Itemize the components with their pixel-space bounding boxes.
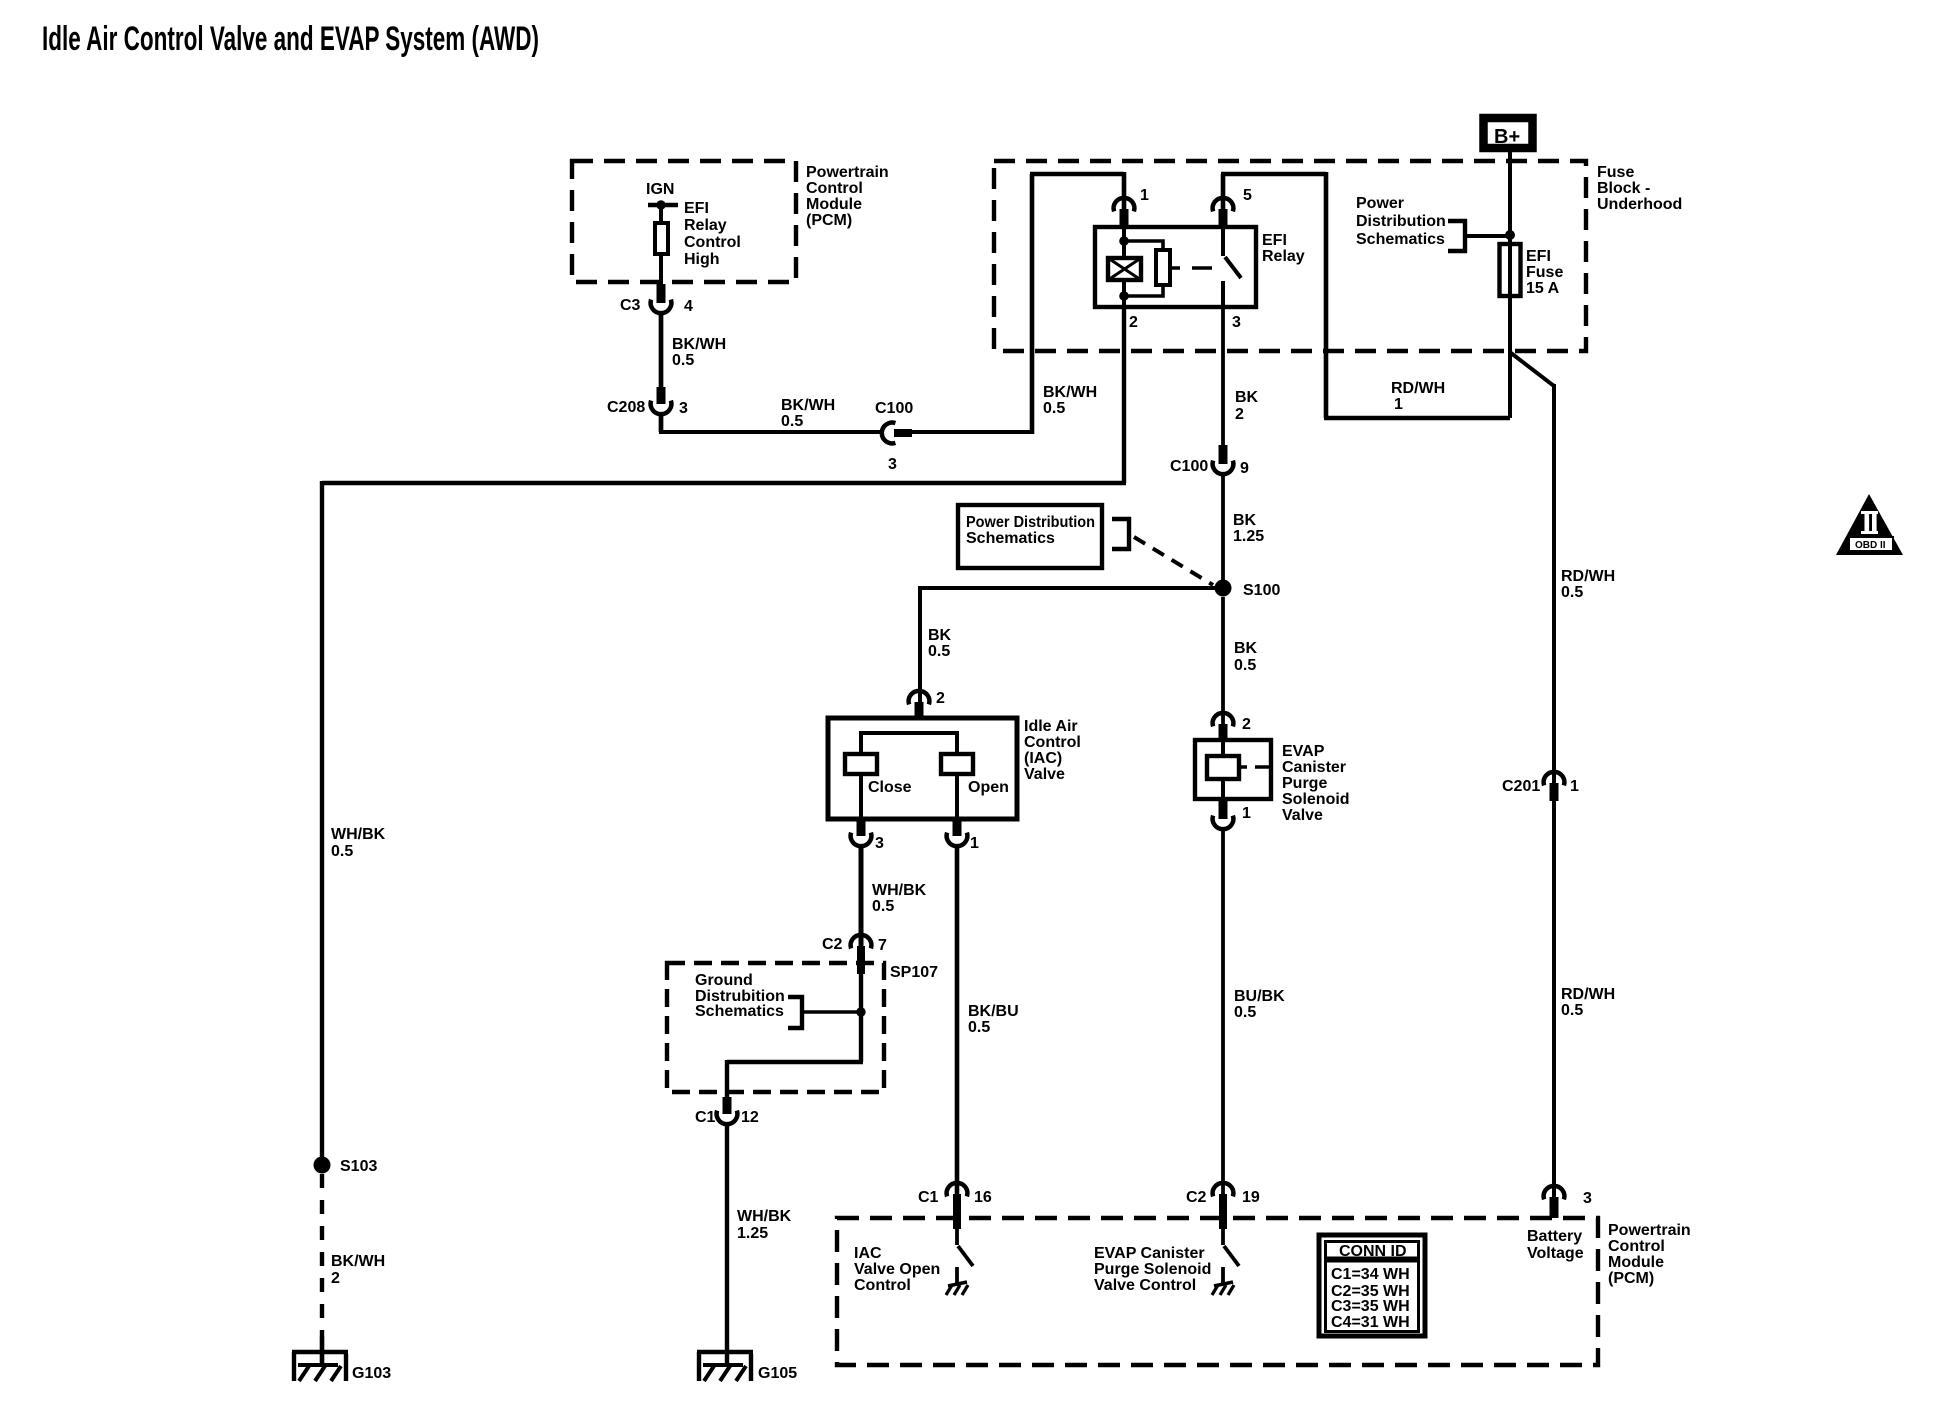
connector relay pin 1 [1114,187,1149,227]
EVAP canister purge solenoid valve box [1195,740,1271,799]
svg-text:2: 2 [1129,314,1138,331]
svg-text:S103: S103 [340,1158,377,1175]
title [42,20,539,58]
svg-text:Battery: Battery [1527,1228,1582,1245]
label PCM top [806,164,889,229]
svg-text:0.5: 0.5 [331,843,353,860]
svg-text:BK/BU: BK/BU [968,1003,1019,1020]
svg-text:7: 7 [878,937,887,954]
svg-text:3: 3 [679,400,688,417]
svg-text:Control: Control [1024,734,1081,751]
label IAC Valve Open Control [854,1245,940,1294]
svg-text:Schematics: Schematics [966,530,1055,547]
splice S103 [314,1157,378,1176]
IAC valve open control switch [946,1216,973,1295]
svg-text:Schematics: Schematics [695,1003,784,1020]
OBD II symbol [1836,494,1903,555]
svg-text:12: 12 [741,1109,759,1126]
svg-text:EFI: EFI [1262,232,1287,249]
EVAP canister purge solenoid valve control switch [1212,1216,1239,1295]
svg-text:Relay: Relay [684,217,727,234]
svg-text:Purge Solenoid: Purge Solenoid [1094,1261,1211,1278]
svg-text:2: 2 [1235,406,1244,423]
label Ground Distrubition Schematics [695,972,785,1020]
svg-text:Ground: Ground [695,972,753,989]
wire WH/BK 0.5 IAC pin 3 to C2 [861,846,927,948]
connector C208 pin 3 [607,387,688,417]
wire BK 1.25 to S100 [1223,474,1264,582]
fuse F EFI Fuse 15 A [1500,244,1564,297]
svg-text:5: 5 [1243,187,1252,204]
wire BK 0.5 S100 down to EVAP [1223,597,1258,726]
wire BK/WH 2 dashed to G103 [322,1174,385,1366]
label EVAP Canister Purge Solenoid Valve Control [1094,1245,1211,1294]
svg-text:1: 1 [1394,396,1403,413]
relay linkage dashes [1170,266,1212,270]
svg-text:1: 1 [1570,778,1579,795]
svg-text:C100: C100 [1170,458,1208,475]
svg-text:Voltage: Voltage [1527,1245,1584,1262]
svg-text:EFI: EFI [1526,248,1551,265]
svg-text:Module: Module [806,196,862,213]
wire BK/WH 0.5 C100 up to relay pin 1 [912,172,1124,434]
svg-text:Valve Control: Valve Control [1094,1277,1196,1294]
svg-text:BK/WH: BK/WH [781,397,835,414]
svg-text:EVAP Canister: EVAP Canister [1094,1245,1205,1262]
svg-text:15 A: 15 A [1526,280,1560,297]
svg-text:C2: C2 [1186,1189,1207,1206]
IAC internal feed bar [859,733,959,754]
svg-text:(IAC): (IAC) [1024,750,1062,767]
svg-text:(PCM): (PCM) [1608,1270,1654,1287]
wire resistor to C3 [659,254,663,284]
svg-text:Control: Control [1608,1238,1665,1255]
B+ box [1484,118,1533,148]
svg-text:B+: B+ [1494,126,1520,148]
svg-text:Control: Control [684,234,741,251]
connector C100 pin 9 [1170,445,1249,477]
svg-text:Control: Control [806,180,863,197]
svg-text:RD/WH: RD/WH [1561,568,1615,585]
svg-text:BK/WH: BK/WH [672,336,726,353]
svg-text:BU/BK: BU/BK [1234,988,1285,1005]
svg-text:SP107: SP107 [890,964,938,981]
svg-text:Underhood: Underhood [1597,196,1682,213]
svg-text:RD/WH: RD/WH [1561,986,1615,1003]
relay coil (crossed box) [1108,227,1141,307]
wire RD/WH 0.5 C201 to PCM [1554,801,1615,1199]
svg-text:0.5: 0.5 [781,413,803,430]
svg-text:Solenoid: Solenoid [1282,791,1350,808]
svg-text:Block -: Block - [1597,180,1650,197]
svg-text:0.5: 0.5 [1043,400,1065,417]
label Power Distribution Schematics (fuse block) [1356,195,1446,248]
svg-text:3: 3 [1232,314,1241,331]
svg-text:0.5: 0.5 [672,352,694,369]
svg-text:WH/BK: WH/BK [331,826,386,843]
svg-text:Idle Air: Idle Air [1024,718,1078,735]
svg-text:Relay: Relay [1262,248,1305,265]
pin labels 2 and 3 [1129,314,1241,331]
svg-text:G105: G105 [758,1365,797,1382]
connector C201 pin 1 [1502,772,1579,801]
svg-text:3: 3 [1583,1190,1592,1207]
svg-text:Powertrain: Powertrain [806,164,889,181]
splice S100 [1215,580,1281,600]
wire WH/BK 1.25 to G105 [727,1124,792,1366]
svg-text:EVAP: EVAP [1282,743,1325,760]
svg-text:BK: BK [1233,512,1257,529]
wire BK 0.5 S100 left to IAC [920,586,1223,704]
relay K EFI Relay box [1095,227,1256,307]
svg-text:Canister: Canister [1282,759,1346,776]
svg-text:OBD II: OBD II [1855,540,1886,551]
IAC Close coil [845,754,912,796]
splice SP107 dashed box (Ground Distribution) [667,963,938,1092]
connector PCM pin 3 [1544,1186,1592,1218]
svg-text:WH/BK: WH/BK [737,1208,792,1225]
svg-text:C208: C208 [607,399,645,416]
relay internal resistor branch [1124,241,1170,296]
wire BU/BK 0.5 EVAP to C2/19 [1223,829,1285,1196]
svg-text:Fuse: Fuse [1597,164,1634,181]
fuse block dashed box (Fuse Block - Underhood) [994,161,1586,351]
svg-text:Power: Power [1356,195,1404,212]
svg-text:2: 2 [1242,716,1251,733]
wire B+ down through fuse [1508,152,1512,418]
IAC coil tails [861,774,957,819]
svg-text:Idle Air Control Valve and EVA: Idle Air Control Valve and EVAP System (… [42,20,539,58]
svg-text:WH/BK: WH/BK [872,882,927,899]
svg-text:0.5: 0.5 [1561,584,1583,601]
resistor EFI Relay Control High driver [655,223,668,254]
svg-text:Module: Module [1608,1254,1664,1271]
IAC Open coil [941,754,1009,796]
wire relay pin 2 long run to S103 [322,307,1126,1158]
wire SP107 internal to C1/12 [727,964,863,1097]
svg-text:C1: C1 [695,1109,716,1126]
ground G105 [697,1352,797,1382]
svg-text:Schematics: Schematics [1356,231,1445,248]
connector EVAP pin 1 [1213,799,1251,829]
svg-text:Distribution: Distribution [1356,213,1446,230]
Power Distribution Schematics reference box [958,505,1102,568]
svg-text:16: 16 [974,1189,992,1206]
svg-text:Control: Control [854,1277,911,1294]
wire IGN to resistor [659,205,663,224]
svg-text:C2: C2 [822,936,843,953]
wire BK/BU 0.5 IAC pin 1 to C1/16 [957,846,1019,1196]
svg-text:IAC: IAC [854,1245,882,1262]
CONN ID table [1319,1235,1425,1336]
ground G103 [292,1352,391,1382]
svg-text:C1: C1 [918,1189,939,1206]
bracket and dashed leader to S100 [1112,519,1213,585]
connector C2 pin 7 [822,935,887,974]
svg-text:0.5: 0.5 [1234,1004,1256,1021]
svg-text:C4=31 WH: C4=31 WH [1331,1314,1410,1331]
label Battery Voltage [1527,1228,1584,1262]
svg-text:0.5: 0.5 [928,643,950,660]
svg-text:1: 1 [1140,187,1149,204]
svg-text:0.5: 0.5 [1234,657,1256,674]
connector C100 pin 3 [875,400,913,473]
svg-text:BK: BK [928,627,952,644]
svg-text:C100: C100 [875,400,913,417]
connector IAC pin 2 [909,690,945,720]
connector IAC pin 1 [947,819,979,852]
PCM top dashed box (Powertrain Control Module) [572,161,796,282]
connector C3 pin 4 [620,284,693,315]
label EFI Relay Control High [684,200,741,268]
label Idle Air Control (IAC) Valve [1024,718,1081,783]
svg-text:1.25: 1.25 [737,1225,768,1242]
svg-text:Power Distribution: Power Distribution [966,514,1095,531]
svg-text:Fuse: Fuse [1526,264,1563,281]
svg-text:EFI: EFI [684,200,709,217]
PCM bottom dashed box [837,1218,1598,1365]
wire BK 2 relay pin 3 down [1223,307,1259,445]
svg-text:BK: BK [1234,640,1258,657]
svg-text:9: 9 [1240,460,1249,477]
svg-text:0.5: 0.5 [872,898,894,915]
svg-text:BK/WH: BK/WH [1043,384,1097,401]
label RD/WH 1 [1391,380,1445,413]
svg-text:4: 4 [684,298,693,315]
svg-text:C1=34 WH: C1=34 WH [1331,1266,1410,1283]
svg-text:Powertrain: Powertrain [1608,1222,1691,1239]
svg-text:2: 2 [936,690,945,707]
svg-text:2: 2 [331,1270,340,1287]
connector EVAP pin 2 [1213,713,1251,742]
label Fuse Block - Underhood [1597,164,1682,213]
IAC valve box [828,718,1017,819]
svg-text:RD/WH: RD/WH [1391,380,1445,397]
svg-text:1: 1 [970,835,979,852]
svg-text:3: 3 [888,456,897,473]
node IGN [646,181,678,210]
svg-text:Open: Open [968,779,1009,796]
svg-text:BK/WH: BK/WH [331,1253,385,1270]
label EFI Relay [1262,232,1305,265]
svg-text:Valve Open: Valve Open [854,1261,940,1278]
connector C1 pin 16 [918,1183,992,1229]
connector relay pin 5 [1213,187,1252,227]
svg-text:0.5: 0.5 [1561,1002,1583,1019]
bracket to B+ wire [1448,221,1515,251]
svg-text:19: 19 [1242,1189,1260,1206]
bracket to SP107 wire [788,997,866,1028]
wire BK/WH 0.5 C208 to C100 [659,397,884,432]
svg-text:Valve: Valve [1282,807,1323,824]
svg-text:1: 1 [1242,805,1251,822]
wire relay pin 5 to fuse [1221,172,1510,418]
svg-text:C201: C201 [1502,778,1540,795]
svg-text:IGN: IGN [646,181,674,198]
label EVAP Canister Purge Solenoid Valve [1282,743,1350,824]
svg-text:Close: Close [868,779,912,796]
svg-text:G103: G103 [352,1365,391,1382]
svg-text:S100: S100 [1243,582,1280,599]
connector C1 pin 12 [695,1097,759,1126]
svg-text:(PCM): (PCM) [806,212,852,229]
connector IAC pin 3 [851,819,884,852]
svg-text:High: High [684,251,720,268]
svg-text:Valve: Valve [1024,766,1065,783]
svg-text:0.5: 0.5 [968,1019,990,1036]
relay switch to pin 3 [1223,227,1241,307]
wire RD/WH 0.5 jog to C201 [1511,353,1615,785]
connector C2 pin 19 [1186,1183,1260,1229]
wire BK/WH 0.5 C3 to C208 [661,312,726,388]
svg-text:BK: BK [1235,389,1259,406]
svg-text:CONN ID: CONN ID [1339,1243,1407,1260]
svg-text:Purge: Purge [1282,775,1327,792]
svg-text:C3=35 WH: C3=35 WH [1331,1298,1410,1315]
svg-text:C3: C3 [620,297,641,314]
label Powertrain Control Module (PCM) bottom [1608,1222,1691,1287]
svg-text:3: 3 [875,835,884,852]
svg-text:1.25: 1.25 [1233,528,1264,545]
